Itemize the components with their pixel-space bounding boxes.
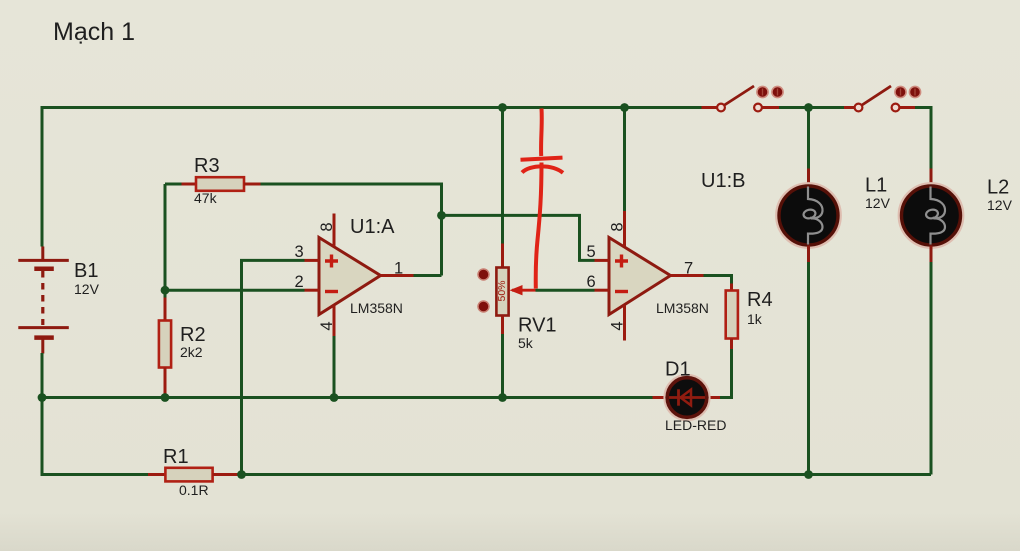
svg-text:R4: R4 <box>747 289 773 311</box>
pin8 wire U1:B <box>623 108 626 212</box>
svg-text:2: 2 <box>295 273 304 291</box>
svg-text:U1:B: U1:B <box>701 170 745 192</box>
plus symbol U1:A <box>325 255 338 268</box>
pin2 stub <box>305 289 320 292</box>
junction lamp L1 top <box>804 103 813 112</box>
svg-text:12V: 12V <box>865 195 891 211</box>
wire wiper to U1:B pin6 <box>536 289 595 292</box>
resistor R2 <box>164 290 167 297</box>
battery B1 <box>18 247 69 354</box>
resistor R1 <box>148 473 165 476</box>
wire between switches <box>779 106 844 109</box>
svg-text:LM358N: LM358N <box>350 300 403 316</box>
switch SW2 actuator dots <box>895 86 906 97</box>
switch SW1 actuator dots <box>757 86 768 97</box>
svg-text:L2: L2 <box>987 177 1009 199</box>
junction at B1 bottom / rail A <box>38 393 47 402</box>
pin4 wire U1:A <box>333 306 336 337</box>
pin4 stub U1:B <box>623 306 626 341</box>
wire R3 right to feedback node <box>261 184 442 276</box>
op-amp U1:A <box>319 238 381 315</box>
switch SW1 <box>702 106 718 109</box>
plus symbol U1:B <box>615 255 628 268</box>
pin5 stub <box>595 259 610 262</box>
RV1 wiper arrow <box>512 289 536 292</box>
svg-text:1k: 1k <box>747 311 763 327</box>
svg-text:12V: 12V <box>74 281 100 297</box>
svg-text:4: 4 <box>609 321 627 330</box>
svg-text:8: 8 <box>609 222 627 231</box>
wire R2 top to pin2 <box>165 289 305 292</box>
svg-text:1: 1 <box>394 260 403 278</box>
svg-text:2k2: 2k2 <box>180 344 203 360</box>
svg-text:7: 7 <box>684 260 693 278</box>
svg-text:47k: 47k <box>194 190 218 206</box>
svg-text:5k: 5k <box>518 335 534 351</box>
pin6 stub <box>595 289 610 292</box>
svg-text:B1: B1 <box>74 260 98 282</box>
potentiometer RV1 <box>501 108 504 244</box>
svg-text:L1: L1 <box>865 175 887 197</box>
junction RV1 bottom / rail A <box>498 393 507 402</box>
svg-text:50%: 50% <box>496 280 508 301</box>
svg-text:3: 3 <box>295 243 304 261</box>
RV1 adjust dot lower <box>478 301 489 312</box>
junction R1 right <box>237 470 246 479</box>
svg-text:R3: R3 <box>194 155 220 177</box>
wire sense feed from R1 up to pin3 <box>242 260 305 474</box>
pin8 stub U1:A <box>333 214 336 247</box>
junction U1:A pin4 / rail A <box>330 393 339 402</box>
svg-text:5: 5 <box>587 243 596 261</box>
svg-text:8: 8 <box>318 222 336 231</box>
wire bottom rail from R1 to lamps <box>242 473 932 476</box>
svg-text:6: 6 <box>587 273 596 291</box>
output pin1 wire <box>381 274 414 277</box>
svg-text:R1: R1 <box>163 446 189 468</box>
junction R2 top <box>161 286 170 295</box>
wire ground rail A <box>42 396 653 399</box>
junction U1:B pin8 / top rail <box>620 103 629 112</box>
junction RV1 top / top rail <box>498 103 507 112</box>
junction R2 bottom <box>161 393 170 402</box>
pin3 stub <box>305 259 320 262</box>
junction lamp L1 bottom <box>804 470 813 479</box>
minus symbol U1:A <box>325 290 338 293</box>
svg-text:LED-RED: LED-RED <box>665 417 726 433</box>
svg-text:12V: 12V <box>987 197 1013 213</box>
svg-text:4: 4 <box>318 321 336 330</box>
RV1 adjust dot upper <box>478 269 489 280</box>
wire feedback node to U1:B pin5 <box>442 215 595 260</box>
lamp L1 <box>807 169 810 187</box>
wire SW2 to L2 corner <box>915 108 931 169</box>
pin7 output wire <box>671 274 704 277</box>
svg-text:0.1R: 0.1R <box>179 482 209 498</box>
wire battery negative down to bottom-left corner <box>42 353 148 475</box>
junction feedback node <box>437 211 446 220</box>
capacitor (red, highlighted) <box>521 109 564 289</box>
switch SW2 <box>844 106 855 109</box>
svg-text:RV1: RV1 <box>518 315 557 337</box>
minus symbol U1:B <box>615 290 628 293</box>
resistor R4 <box>730 284 733 291</box>
svg-text:LM358N: LM358N <box>656 300 709 316</box>
LED D1 <box>708 396 721 399</box>
lamp L2 <box>930 169 933 187</box>
resistor R3 <box>165 183 182 186</box>
svg-text:R2: R2 <box>180 324 206 346</box>
wire R3 left vertical <box>164 184 167 290</box>
svg-text:Mạch 1: Mạch 1 <box>53 18 135 46</box>
wire top rail left + left drop to battery <box>42 108 702 247</box>
op-amp U1:B <box>609 238 671 315</box>
svg-text:U1:A: U1:A <box>350 216 395 238</box>
svg-text:D1: D1 <box>665 359 691 381</box>
wire L1 top feed <box>807 108 810 169</box>
